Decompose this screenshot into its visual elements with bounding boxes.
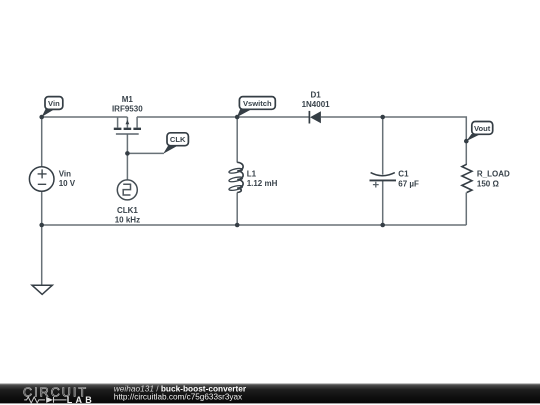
svg-text:10 kHz: 10 kHz (115, 215, 140, 224)
wire C1 node to top-right corner down to R_LOAD (383, 117, 467, 164)
CircuitLab logo schematic squiggle (resistor + diode) (24, 397, 66, 403)
svg-text:10 V: 10 V (59, 179, 76, 188)
diode D1 (1N4001) (302, 91, 331, 124)
wire L1 bottom to bottom rail (236, 193, 238, 226)
wire V1 bottom to bottom rail (41, 191, 43, 225)
node Vin junction dot (39, 115, 44, 120)
ground symbol (32, 285, 52, 294)
node Vin flag (42, 97, 63, 117)
svg-text:LAB: LAB (67, 395, 95, 405)
svg-text:R_LOAD: R_LOAD (477, 169, 510, 178)
svg-text:CLK1: CLK1 (117, 206, 138, 215)
CircuitLab logo LAB text (67, 395, 95, 405)
wire Vin node down to V1 top (41, 117, 43, 167)
node Vout junction dot (464, 139, 469, 144)
CircuitLab logo CIRCUIT outline text (23, 385, 88, 399)
wire C1 bottom lead (382, 180, 384, 225)
transistor M1 (PMOS IRF9530) (112, 95, 143, 134)
svg-text:150 Ω: 150 Ω (477, 179, 500, 188)
svg-text:L1: L1 (247, 170, 257, 179)
inductor L1 (1.12 mH) (229, 162, 278, 192)
footer url line (114, 393, 242, 402)
capacitor C1 (67 uF, polarized) (370, 169, 420, 188)
wire Vin node to M1 source (top left horizontal) (42, 116, 128, 118)
clock source CLK1 (10 kHz) (115, 180, 140, 225)
wire bottom rail (42, 224, 467, 226)
resistor R_LOAD (150 ohm) (462, 164, 510, 192)
svg-text:M1: M1 (122, 95, 134, 104)
wire M1 gate to CLK junction (126, 134, 128, 153)
wire CLK junction to CLK flag tail (127, 152, 163, 154)
wire D1 anode to C1 top node (321, 116, 383, 118)
footer bar (0, 384, 540, 404)
node C1 bottom junction dot (380, 223, 385, 228)
svg-text:C1: C1 (398, 169, 409, 178)
node C1 top junction dot (380, 115, 385, 120)
svg-text:IRF9530: IRF9530 (112, 104, 143, 113)
svg-text:http://circuitlab.com/c75g633s: http://circuitlab.com/c75g633sr3yax (114, 393, 242, 402)
svg-text:Vin: Vin (59, 170, 71, 179)
wire Vswitch node to D1 cathode (237, 116, 309, 118)
svg-text:Vout: Vout (474, 124, 491, 133)
svg-text:Vin: Vin (48, 99, 60, 108)
wire bottom rail to ground (41, 225, 43, 285)
node Vout flag (466, 122, 492, 142)
svg-text:Vswitch: Vswitch (243, 99, 272, 108)
node L1 bottom junction dot (235, 223, 240, 228)
node Vswitch junction dot (235, 115, 240, 120)
svg-text:67 µF: 67 µF (398, 179, 419, 188)
svg-text:1N4001: 1N4001 (302, 100, 331, 109)
wire Vswitch node down to L1 (236, 117, 238, 163)
svg-text:D1: D1 (310, 91, 321, 100)
wire CLK junction to CLK1 source (126, 153, 128, 180)
node CLK junction dot (125, 151, 130, 156)
node Vswitch flag (237, 97, 275, 118)
node bottom-left junction dot (39, 223, 44, 228)
voltage source V1 (Vin 10 V) (29, 167, 75, 192)
node CLK flag (163, 133, 188, 154)
wire C1 top lead (382, 117, 384, 175)
svg-text:1.12 mH: 1.12 mH (247, 179, 278, 188)
svg-text:CLK: CLK (170, 135, 186, 144)
wire M1 drain to Vswitch node (137, 116, 237, 118)
footer title line (114, 383, 247, 393)
wire R_LOAD bottom to bottom rail corner (465, 193, 467, 226)
